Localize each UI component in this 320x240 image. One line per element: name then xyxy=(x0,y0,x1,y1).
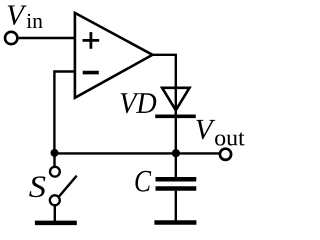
ground at switch xyxy=(35,221,77,226)
terminal Vin xyxy=(5,32,17,44)
op-amp U1 xyxy=(75,13,153,98)
wire op-amp output to diode and output node xyxy=(152,55,176,154)
label C xyxy=(135,171,151,192)
capacitor C xyxy=(156,153,197,222)
wire inverting input feedback xyxy=(54,72,76,154)
label S xyxy=(29,176,45,197)
switch S xyxy=(50,153,77,222)
junction node at switch xyxy=(51,149,59,157)
ground at capacitor xyxy=(154,220,196,225)
label Vout xyxy=(196,120,244,146)
label VD xyxy=(121,93,139,113)
label Vin xyxy=(8,6,43,28)
wire Vin to op-amp non-inverting input xyxy=(19,37,76,39)
wire output node bus xyxy=(54,152,219,154)
diode VD xyxy=(155,88,196,117)
terminal Vout xyxy=(220,149,231,160)
junction node at capacitor xyxy=(172,149,180,157)
